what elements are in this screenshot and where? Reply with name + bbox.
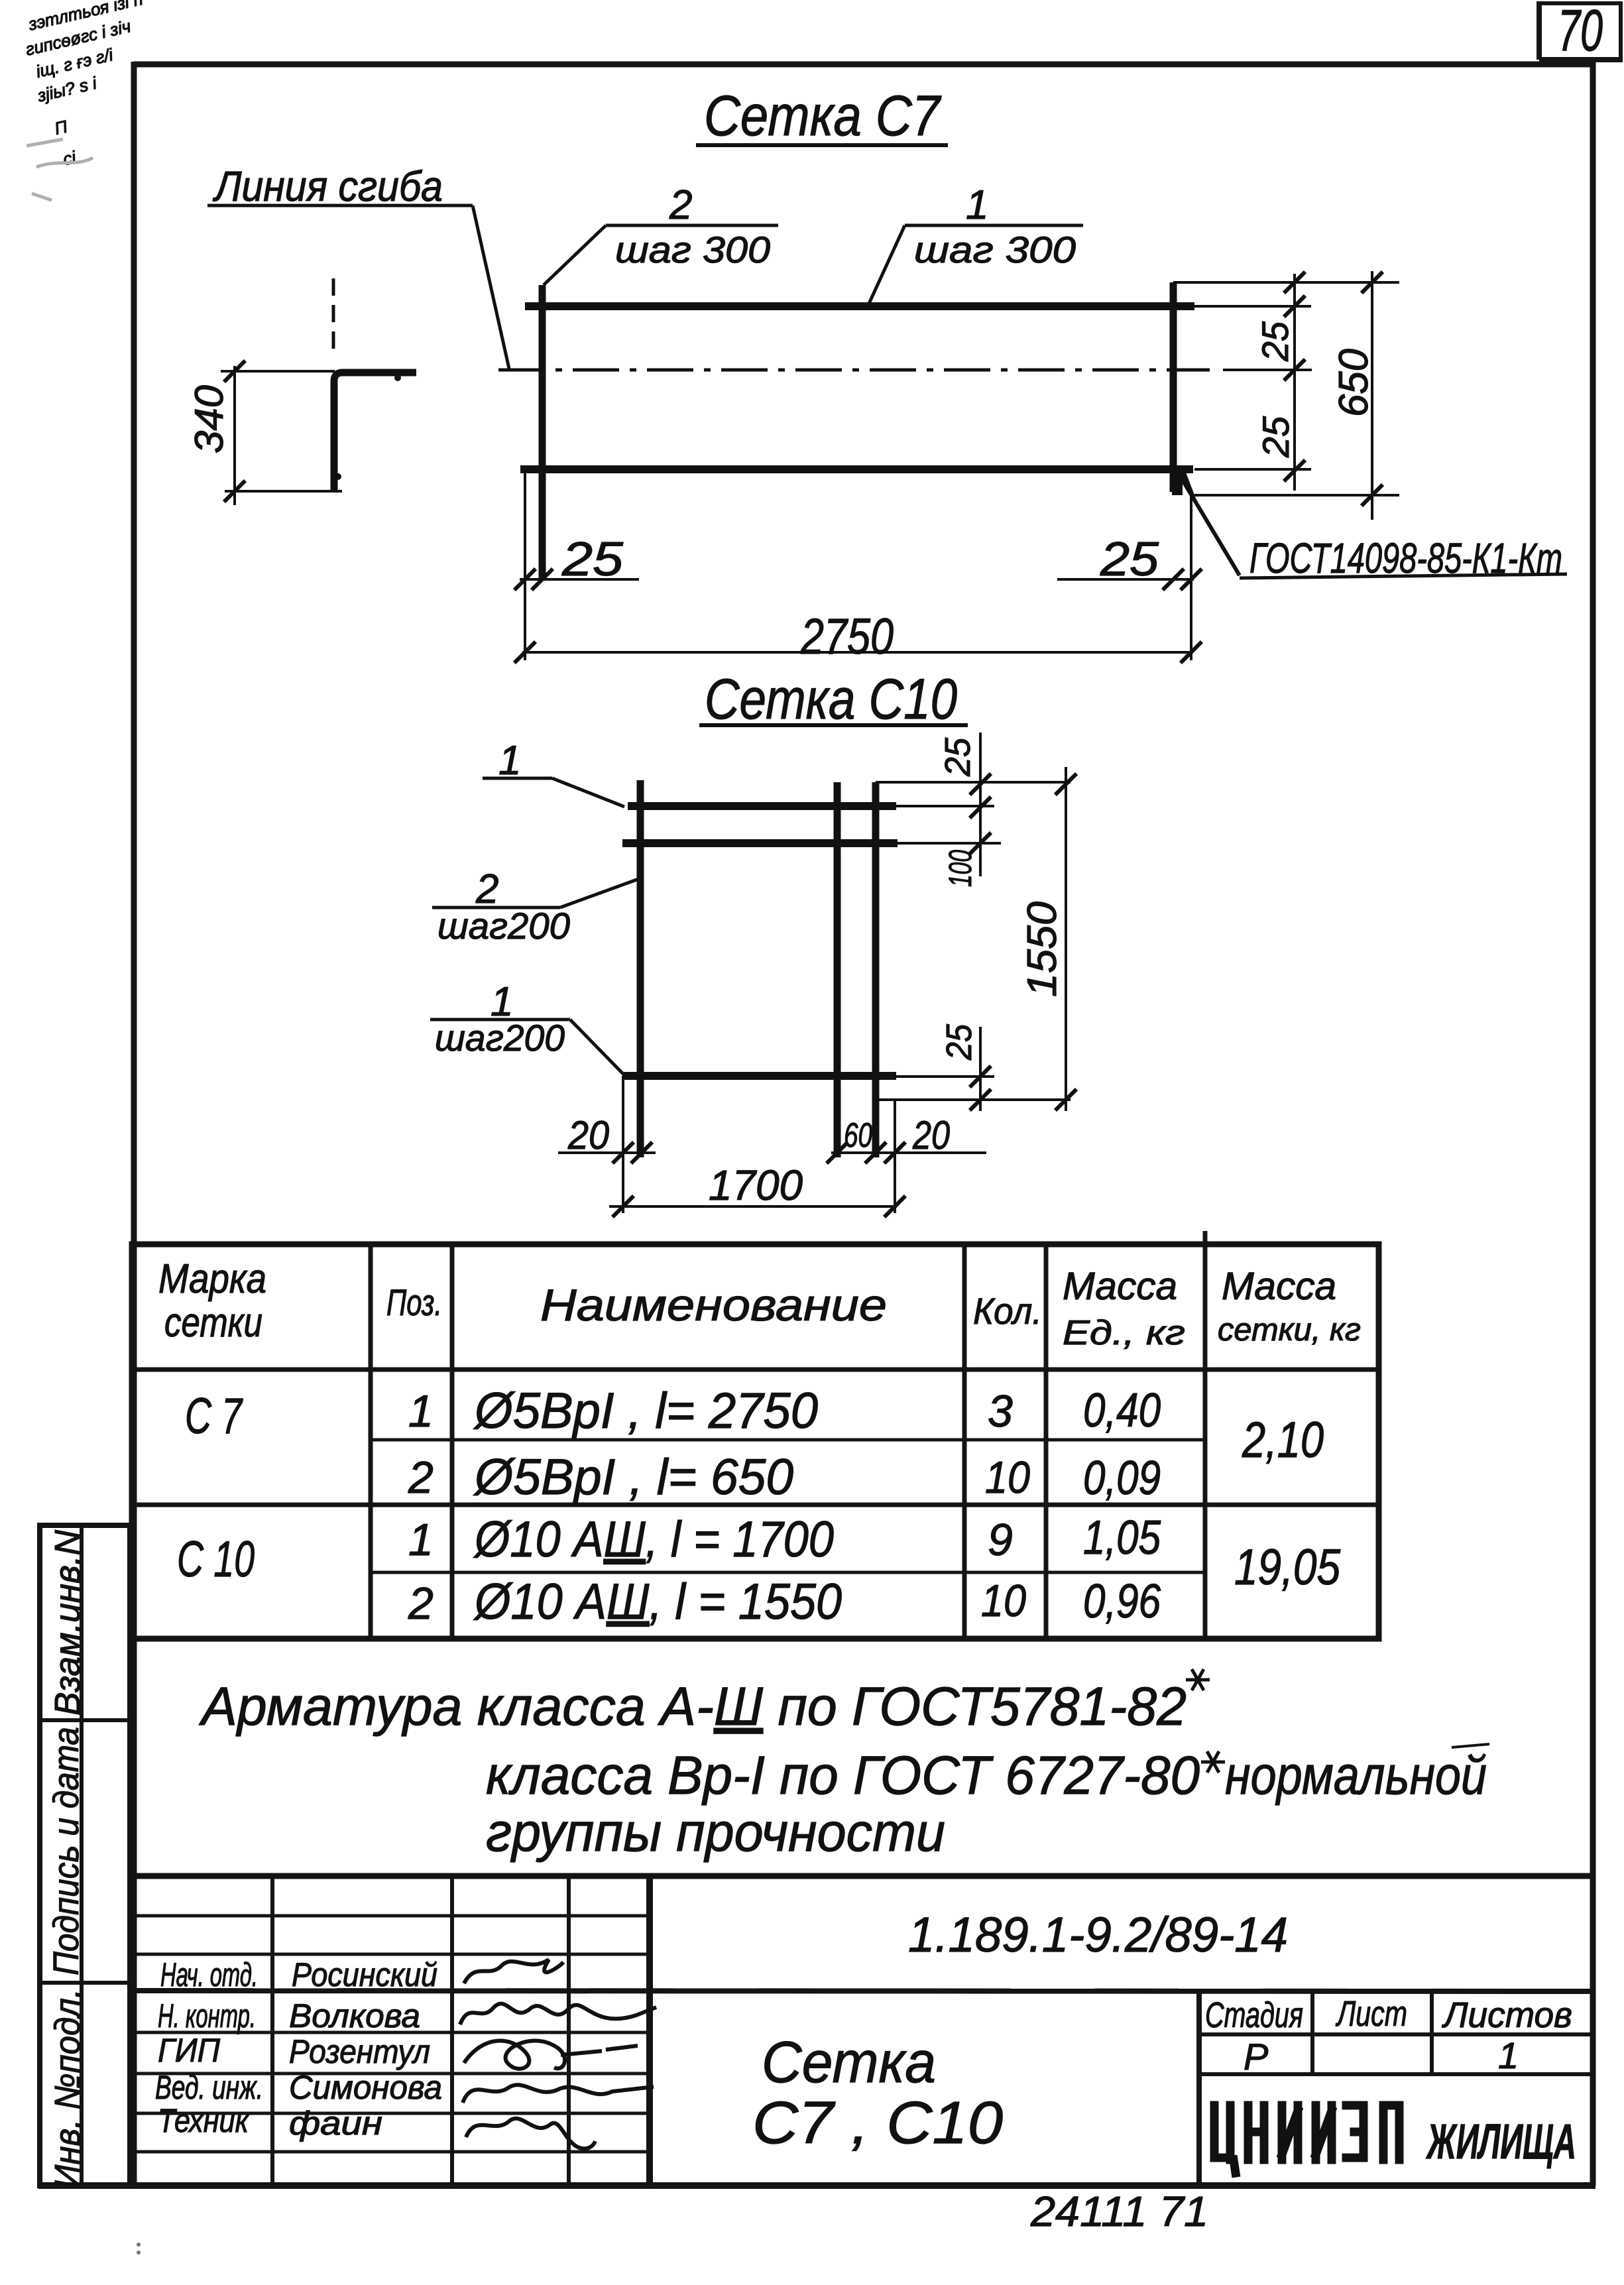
svg-text:1: 1	[1498, 2034, 1519, 2076]
svg-text:сетки: сетки	[164, 1300, 262, 1346]
svg-text:1,05: 1,05	[1083, 1511, 1161, 1564]
svg-text:10: 10	[985, 1452, 1030, 1503]
svg-text:25: 25	[938, 737, 978, 777]
svg-text:25: 25	[1100, 533, 1159, 586]
svg-text:Подпись и дата: Подпись и дата	[46, 1727, 86, 1975]
svg-text:Сетка: Сетка	[762, 2029, 936, 2095]
svg-text:С7 , С10: С7 , С10	[752, 2090, 1003, 2156]
svg-text:25: 25	[1255, 416, 1297, 458]
svg-text:25: 25	[939, 1024, 979, 1061]
svg-text:1: 1	[408, 1515, 434, 1565]
svg-text:Р: Р	[1244, 2036, 1268, 2078]
svg-text:0,40: 0,40	[1083, 1384, 1161, 1437]
svg-text:340: 340	[187, 385, 231, 453]
svg-text:Стадия: Стадия	[1205, 1995, 1303, 2035]
svg-text:1.189.1-9.2/89-14: 1.189.1-9.2/89-14	[908, 1907, 1288, 1962]
svg-text:С 10: С 10	[177, 1531, 255, 1588]
svg-text:шаг200: шаг200	[437, 905, 570, 947]
svg-text:Ед., кг: Ед., кг	[1063, 1314, 1185, 1352]
svg-text:Розентул: Розентул	[289, 2033, 430, 2070]
svg-text:Ø5ВрI , l= 650: Ø5ВрI , l= 650	[473, 1449, 793, 1505]
svg-text:1: 1	[966, 182, 988, 228]
svg-text:Листов: Листов	[1442, 1995, 1572, 2035]
svg-text:сетки, кг: сетки, кг	[1218, 1313, 1361, 1348]
svg-text:2750: 2750	[800, 609, 894, 665]
svg-text:Симонова: Симонова	[289, 2069, 442, 2106]
svg-text:Поз.: Поз.	[386, 1281, 442, 1323]
svg-text:3: 3	[988, 1386, 1013, 1436]
svg-text:100: 100	[943, 850, 978, 887]
svg-text:шаг200: шаг200	[435, 1017, 565, 1059]
svg-text:19,05: 19,05	[1234, 1539, 1341, 1596]
svg-text:нормальной: нормальной	[1225, 1745, 1487, 1806]
svg-text:Масса: Масса	[1063, 1265, 1177, 1308]
svg-text:1550: 1550	[1019, 902, 1065, 997]
svg-text:2: 2	[669, 182, 692, 228]
svg-text:Лист: Лист	[1336, 1994, 1407, 2034]
svg-text:2: 2	[408, 1578, 434, 1629]
svg-text:Н. контр.: Н. контр.	[158, 1997, 256, 2034]
svg-text:Инв. №подл.: Инв. №подл.	[48, 1989, 87, 2189]
svg-text:Сетка С10: Сетка С10	[705, 668, 957, 731]
svg-text:Марка: Марка	[158, 1256, 266, 1302]
svg-text:Ø10 АШ, l = 1550: Ø10 АШ, l = 1550	[473, 1574, 842, 1630]
svg-text:Взам.инв.N: Взам.инв.N	[48, 1529, 87, 1716]
svg-text:Росинский: Росинский	[292, 1956, 437, 1993]
svg-text:25: 25	[1254, 321, 1296, 362]
svg-text:группы прочности: группы прочности	[486, 1802, 945, 1863]
svg-text:1700: 1700	[709, 1161, 803, 1209]
svg-text:0,96: 0,96	[1083, 1575, 1161, 1628]
svg-text:0,09: 0,09	[1083, 1452, 1161, 1505]
svg-text:1: 1	[408, 1386, 434, 1436]
svg-text:ЖИЛИЩА: ЖИЛИЩА	[1425, 2114, 1576, 2169]
svg-text:20: 20	[912, 1113, 950, 1157]
svg-text:класса Вр-I по ГОСТ 6727-80: класса Вр-I по ГОСТ 6727-80	[486, 1745, 1200, 1806]
svg-text:Наименование: Наименование	[540, 1280, 887, 1330]
svg-text:9: 9	[988, 1515, 1013, 1565]
svg-text:ГИП: ГИП	[158, 2032, 221, 2069]
svg-text:2: 2	[408, 1452, 434, 1503]
svg-text:25: 25	[561, 533, 624, 586]
svg-text:Кол.: Кол.	[973, 1290, 1042, 1332]
svg-text:Сетка С7: Сетка С7	[704, 84, 942, 148]
svg-text:24111 71: 24111 71	[1030, 2188, 1208, 2235]
svg-text:шаг 300: шаг 300	[914, 229, 1076, 270]
svg-text:Линия сгиба: Линия сгиба	[212, 162, 443, 210]
svg-text:Вед. инж.: Вед. инж.	[155, 2069, 263, 2106]
svg-text:60: 60	[844, 1116, 872, 1155]
svg-text:Масса: Масса	[1222, 1265, 1336, 1308]
svg-text:70: 70	[1558, 0, 1603, 63]
svg-text:Арматура класса А-Ш по ГОС: Арматура класса А-Ш по ГОСТ5781-82	[198, 1676, 1187, 1737]
svg-text:С 7: С 7	[185, 1388, 243, 1444]
svg-text:Нач. отд.: Нач. отд.	[160, 1956, 258, 1993]
svg-text:2,10: 2,10	[1242, 1412, 1324, 1468]
svg-text:20: 20	[567, 1113, 609, 1157]
svg-text:Ø5ВрI , l= 2750: Ø5ВрI , l= 2750	[473, 1383, 818, 1439]
svg-text:фаин: фаин	[289, 2105, 382, 2142]
svg-text:650: 650	[1331, 349, 1377, 417]
svg-text:Техник: Техник	[158, 2102, 250, 2139]
svg-text:Ø10 АШ, l = 1700: Ø10 АШ, l = 1700	[473, 1511, 834, 1568]
svg-text:Волкова: Волкова	[289, 1997, 420, 2034]
svg-text:шаг 300: шаг 300	[615, 229, 770, 270]
svg-text:10: 10	[981, 1576, 1026, 1626]
